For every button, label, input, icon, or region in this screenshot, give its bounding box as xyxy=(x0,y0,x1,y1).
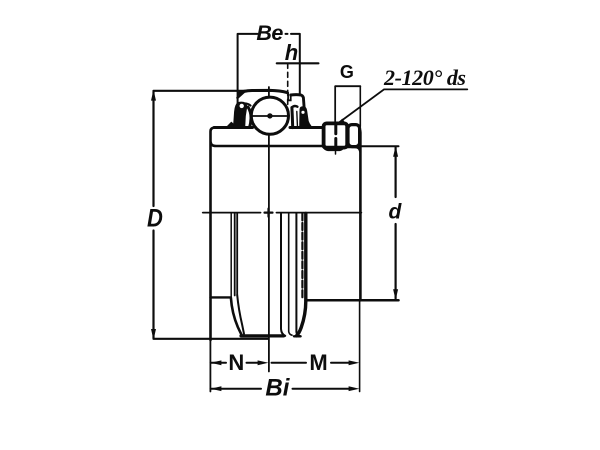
left flange flare outer xyxy=(231,298,242,336)
d arrow down xyxy=(393,289,398,300)
left sleeve line a xyxy=(230,213,232,296)
right seal inner lip xyxy=(290,108,294,128)
lubrication notch xyxy=(288,93,291,101)
outer ring left chamfer xyxy=(237,92,243,98)
right seal hole xyxy=(301,111,304,114)
bearing right edge xyxy=(356,128,360,301)
outer ring top arc left xyxy=(239,90,287,93)
svg-text:G: G xyxy=(340,62,354,82)
D bottom extension line xyxy=(154,338,269,340)
ball xyxy=(251,97,288,134)
Bi right extension line xyxy=(359,301,361,392)
Bi right arrow xyxy=(349,386,360,391)
outer ring top arc right xyxy=(291,95,305,109)
svg-text:M: M xyxy=(309,350,327,375)
ball crosshair horizontal xyxy=(252,115,288,117)
right sleeve line b xyxy=(289,213,292,335)
leader line for 2-120 ds xyxy=(339,89,467,122)
Be left extension line xyxy=(237,34,239,126)
right seal thin line xyxy=(296,112,299,128)
node center cross xyxy=(265,209,273,217)
h extension dashed line xyxy=(287,63,289,116)
N right arrow at centerline xyxy=(258,360,269,365)
svg-text:Be: Be xyxy=(256,21,283,45)
right sleeve dashed line xyxy=(301,213,303,299)
bore line with set screw dimple xyxy=(211,143,360,152)
bearing housing left edge xyxy=(211,128,216,341)
Bi left arrow xyxy=(211,386,222,391)
svg-text:d: d xyxy=(388,201,402,224)
wire d dimension line xyxy=(395,148,397,198)
left flange flare inner xyxy=(237,295,244,334)
svg-text:h: h xyxy=(285,40,298,65)
left sleeve line b xyxy=(234,213,236,295)
wire Be dimension line xyxy=(238,33,300,35)
wire N M dimension line xyxy=(210,362,351,364)
right seal hook xyxy=(292,106,298,108)
d arrow up xyxy=(393,146,398,157)
right sleeve line c xyxy=(296,213,300,336)
svg-text:Bi: Bi xyxy=(265,375,290,402)
bearing top edge left segment xyxy=(214,126,253,129)
centerline vertical (bearing axis mark) xyxy=(268,87,270,372)
set screw dimple blob xyxy=(327,147,337,149)
G right extension line xyxy=(359,86,361,126)
left sleeve line c xyxy=(236,213,238,295)
set screw head xyxy=(324,123,348,147)
wire G dimension line xyxy=(335,85,360,87)
G left extension line xyxy=(334,86,336,122)
set screw centerline xyxy=(334,87,336,122)
D top extension line xyxy=(154,90,248,92)
left raceway lip xyxy=(248,107,251,127)
centerline horizontal xyxy=(203,212,261,214)
M right arrow xyxy=(349,360,360,365)
Be right extension line xyxy=(299,34,301,95)
left seal foot xyxy=(226,122,234,128)
right flange bottom tip xyxy=(294,335,301,337)
left inner step xyxy=(211,296,231,298)
d bottom extension line xyxy=(306,299,399,302)
D arrow down xyxy=(151,329,156,340)
bottom edge of sleeve xyxy=(241,334,284,337)
d top extension line xyxy=(361,145,399,147)
right seal body xyxy=(299,106,311,128)
svg-text:D: D xyxy=(147,204,163,232)
left seal body xyxy=(233,102,247,128)
svg-text:N: N xyxy=(228,350,244,375)
svg-text:2-120° ds: 2-120° ds xyxy=(383,65,466,90)
left shoulder curve xyxy=(246,103,251,105)
right sleeve line a xyxy=(281,213,285,335)
set screw tip part xyxy=(348,125,360,147)
D arrow up xyxy=(151,90,156,101)
N left arrow xyxy=(211,360,222,365)
Bi left extension line xyxy=(209,341,211,392)
ball center dot xyxy=(267,113,272,118)
wire h dimension line xyxy=(277,62,319,64)
wire D dimension line xyxy=(152,92,154,207)
right sleeve thick line xyxy=(304,213,307,300)
left seal hole xyxy=(240,104,244,108)
wire Bi dimension line xyxy=(210,388,349,390)
right flange J curve xyxy=(297,301,306,336)
bearing top edge right segment xyxy=(290,126,324,129)
